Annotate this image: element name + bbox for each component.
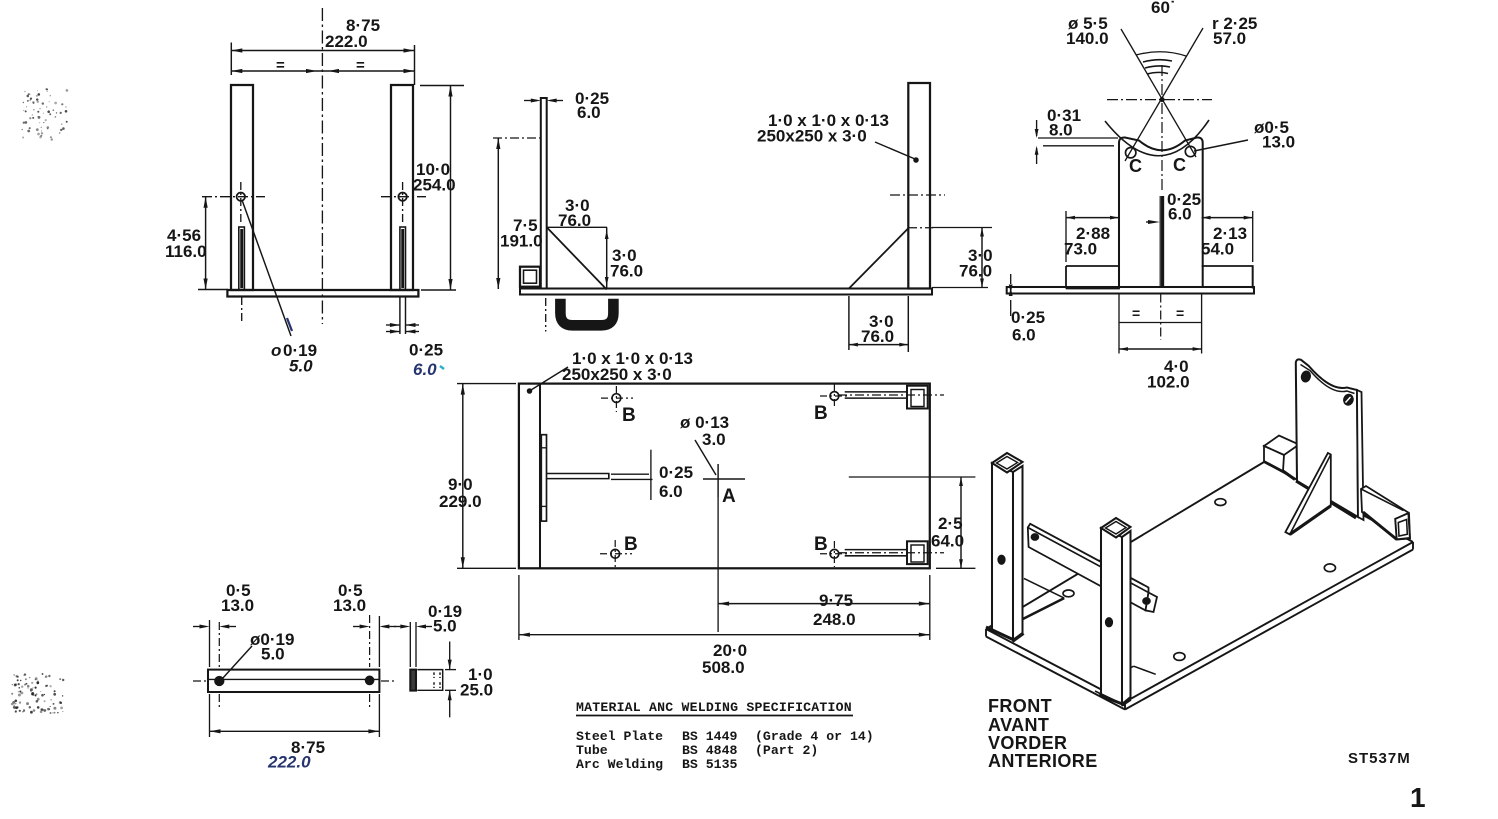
plan outline <box>519 384 930 569</box>
iso base hole B bottom <box>1174 653 1185 661</box>
notch radius arc r57 <box>1105 120 1209 156</box>
iso left post hole <box>998 555 1005 564</box>
iso rear plate top notch curve <box>1301 365 1355 394</box>
svg-text:508.0: 508.0 <box>702 658 745 677</box>
side view rear post (square tube) <box>908 83 930 289</box>
scan smudge upper-left <box>22 88 69 141</box>
svg-text:=: = <box>1176 305 1184 321</box>
hole C right <box>1185 146 1195 156</box>
iso middle post <box>1101 528 1122 704</box>
dimension 2.88 / 73.0 left bar <box>1065 211 1067 262</box>
dimension 0.5 / 13.0 left <box>209 620 211 667</box>
svg-text:6.0: 6.0 <box>659 482 683 501</box>
dimension 0.31 / 8.0 <box>1038 137 1118 139</box>
construction line right 60deg <box>1125 28 1203 161</box>
angle arc hatch marks <box>1143 60 1172 62</box>
dimension 0.25 / 6.0 plate thickness <box>524 100 537 102</box>
hole centerline on rear post <box>890 194 945 196</box>
svg-text:13.0: 13.0 <box>333 596 366 615</box>
svg-text:6.0: 6.0 <box>1168 205 1192 224</box>
leader to center mark A <box>695 440 716 475</box>
dimension 10.0 / 254.0 post height right <box>420 85 464 87</box>
svg-text:76.0: 76.0 <box>558 211 591 230</box>
svg-text:=: = <box>276 57 285 74</box>
svg-text:13.0: 13.0 <box>221 596 254 615</box>
strap centerlines <box>193 680 207 682</box>
svg-text:13.0: 13.0 <box>1262 133 1295 152</box>
strap end side stub with hidden hole <box>417 670 442 691</box>
horizontal centerline detail <box>1107 99 1212 101</box>
svg-text:76.0: 76.0 <box>610 262 643 281</box>
svg-text:57.0: 57.0 <box>1213 29 1246 48</box>
dimension 4.0 / 102.0 <box>1119 348 1202 350</box>
svg-text:0·25: 0·25 <box>659 463 693 482</box>
cross tube left bar behind plate <box>1066 266 1119 289</box>
strap hole left (filled) <box>215 676 224 685</box>
hole B bottom-left <box>611 549 620 558</box>
svg-text:229.0: 229.0 <box>439 492 482 511</box>
hole C left <box>1126 148 1136 158</box>
leader line hole dia <box>242 200 291 336</box>
dimension 1.0 / 25.0 strap width <box>445 669 456 671</box>
dimension 4.56 / 116.0 hole height left <box>198 289 228 291</box>
iso rear stub tube <box>1264 436 1299 456</box>
svg-text:64.0: 64.0 <box>931 532 964 551</box>
svg-text:=: = <box>356 57 365 74</box>
front view left post <box>231 85 253 290</box>
scan artifact cyan dash <box>440 366 444 369</box>
dimension 3.0 / 76.0 right gusset base <box>848 296 850 350</box>
strap end view bar <box>410 670 416 691</box>
dimension 9.0 / 229.0 plan depth <box>457 383 516 385</box>
iso base far edge W-N <box>986 462 1264 629</box>
side view cross tube square section <box>520 267 540 287</box>
vertical centerline detail <box>1161 65 1163 192</box>
scan smudge lower-left <box>11 673 65 714</box>
side view strap U below base <box>560 299 613 326</box>
svg-text:o: o <box>271 341 281 360</box>
svg-text:0·25: 0·25 <box>1011 308 1045 327</box>
iso right tube end cap <box>1395 513 1410 539</box>
dimension 8.75 / 222.0 top width <box>230 43 232 76</box>
svg-text:9·75: 9·75 <box>819 591 853 610</box>
svg-text:Steel Plate: Steel Plate <box>576 729 663 744</box>
svg-text:76.0: 76.0 <box>959 262 992 281</box>
centerline front view <box>321 8 323 324</box>
svg-text:250x250 x 3·0: 250x250 x 3·0 <box>562 365 672 384</box>
svg-text:BS 5135: BS 5135 <box>682 757 737 772</box>
svg-text:5.0: 5.0 <box>289 357 313 376</box>
plan rear plate edge line <box>539 384 541 569</box>
iso strap hole right <box>1143 598 1150 604</box>
hole B bottom-right <box>830 549 839 558</box>
dimension 0.25 / 6.0 base thickness detail <box>1010 300 1012 316</box>
detail base plate <box>1007 287 1254 294</box>
svg-text:(Part 2): (Part 2) <box>755 743 818 758</box>
iso base back edge N-E <box>1264 462 1413 542</box>
front view right post <box>391 85 413 290</box>
leader strap hole <box>222 646 252 679</box>
svg-text:60˙: 60˙ <box>1151 0 1176 17</box>
iso right tube weld <box>1363 512 1397 539</box>
svg-text:6.0: 6.0 <box>1012 326 1036 345</box>
iso right tube rail <box>1361 486 1410 540</box>
svg-text:ANTERIORE: ANTERIORE <box>988 751 1098 771</box>
iso strap hole left <box>1031 534 1038 540</box>
iso rear plate side face <box>1357 390 1364 520</box>
plan slot bottom-right with tube end <box>845 550 907 556</box>
svg-text:B: B <box>814 403 828 424</box>
svg-text:6.0: 6.0 <box>413 360 437 379</box>
svg-text:Arc Welding: Arc Welding <box>576 757 663 772</box>
side view base plate <box>520 289 932 295</box>
svg-text:191.0: 191.0 <box>500 232 543 251</box>
iso base front-right edge F-E with thickness <box>1125 542 1413 702</box>
svg-text:VORDER: VORDER <box>988 733 1067 753</box>
iso rear plate hole upper-left <box>1300 370 1311 382</box>
strap hole right (filled) <box>365 676 374 685</box>
svg-text:73.0: 73.0 <box>1064 240 1097 259</box>
svg-text:=: = <box>1132 305 1140 321</box>
svg-text:1: 1 <box>1410 782 1426 813</box>
svg-text:C: C <box>1173 155 1186 175</box>
front view hole right <box>398 193 406 201</box>
svg-text:254.0: 254.0 <box>413 176 456 195</box>
svg-text:BS 4848: BS 4848 <box>682 743 737 758</box>
dimension 20.0 / 508.0 <box>518 575 520 640</box>
svg-text:MATERIAL ANC WELDING SPECIFICA: MATERIAL ANC WELDING SPECIFICATION <box>576 700 852 715</box>
iso strap between posts <box>1028 524 1149 611</box>
iso base front-left edge W-F with thickness <box>986 629 1125 702</box>
leader to hole C right <box>1194 140 1248 151</box>
iso gusset <box>1285 453 1330 534</box>
front view left slot <box>239 227 245 290</box>
svg-text:6.0: 6.0 <box>577 103 601 122</box>
svg-text:2·5: 2·5 <box>938 514 963 533</box>
svg-text:B: B <box>622 405 636 426</box>
iso base hole B right <box>1324 564 1335 572</box>
iso middle post cap <box>1101 518 1131 538</box>
rear plate detail outline with notch <box>1119 137 1203 287</box>
apex dot <box>1160 98 1164 102</box>
svg-text:FRONT: FRONT <box>988 696 1052 716</box>
hole B top-left <box>612 394 621 403</box>
iso left post cap <box>992 453 1023 473</box>
dimension 3.0 / 76.0 right gusset height <box>909 227 936 229</box>
side view upright plate <box>541 98 547 289</box>
plan slot bar <box>547 474 609 479</box>
side view gusset right <box>849 228 908 288</box>
iso gusset weld base <box>1290 506 1331 535</box>
dimension 9.75 / 248.0 <box>717 497 719 632</box>
svg-text:54.0: 54.0 <box>1201 240 1234 259</box>
leader to rear post <box>875 142 915 159</box>
svg-text:8.0: 8.0 <box>1049 121 1073 140</box>
center mark A <box>703 478 745 480</box>
dimension equal-halves line with = marks <box>231 70 414 72</box>
svg-text:76.0: 76.0 <box>861 327 894 346</box>
svg-text:0·25: 0·25 <box>409 341 443 360</box>
front view base plate <box>227 290 418 297</box>
dimension 8.75 / 222.0 strap length <box>209 694 211 737</box>
svg-text:B: B <box>814 534 828 555</box>
svg-text:222.0: 222.0 <box>325 32 368 51</box>
dimension 2.13 / 54.0 right bar <box>1252 211 1254 262</box>
dimension 0.25 / 6.0 slot width front view <box>399 297 401 334</box>
svg-text:A: A <box>722 486 736 507</box>
strap outline <box>208 670 379 692</box>
svg-text:ST537M: ST537M <box>1348 750 1411 767</box>
dimension 7.5 / 191.0 height <box>493 137 541 139</box>
svg-text:AVANT: AVANT <box>988 715 1049 735</box>
slot in rear plate detail <box>1161 196 1164 288</box>
iso left post foot weld <box>986 627 1014 640</box>
iso base hole B left <box>1063 590 1074 597</box>
iso rear plate bottom weld <box>1296 481 1356 518</box>
iso scribe lines footprint <box>1024 578 1064 598</box>
svg-text:C: C <box>1129 156 1142 176</box>
equal halves dimension below detail <box>1118 294 1120 354</box>
plan rear plate bar <box>541 435 546 521</box>
dimension 2.5 / 64.0 right <box>849 476 976 478</box>
svg-text:116.0: 116.0 <box>165 242 207 261</box>
dimension 0.25 / 6.0 plan slot <box>650 450 652 500</box>
hole B top-right <box>830 392 839 401</box>
svg-text:248.0: 248.0 <box>813 610 856 629</box>
svg-text:25.0: 25.0 <box>460 681 493 700</box>
svg-text:Tube: Tube <box>576 743 608 758</box>
iso middle post foot weld <box>1099 695 1125 705</box>
leader plan corner <box>531 367 568 390</box>
construction line left 60deg <box>1121 29 1196 157</box>
svg-text:250x250 x 3·0: 250x250 x 3·0 <box>757 127 867 146</box>
svg-text:140.0: 140.0 <box>1066 29 1109 48</box>
iso left post <box>992 463 1013 640</box>
iso base hole B top <box>1215 499 1226 506</box>
plan slot top-right with tube end <box>845 392 907 398</box>
svg-text:5.0: 5.0 <box>433 617 457 636</box>
dimension 0.5 / 13.0 right <box>378 616 380 667</box>
front view right slot <box>400 227 406 290</box>
centerline below left plate <box>545 298 547 332</box>
iso middle post hole <box>1106 618 1113 627</box>
iso rear plate <box>1296 359 1358 517</box>
svg-text:(Grade 4 or 14): (Grade 4 or 14) <box>755 729 874 744</box>
svg-text:BS 1449: BS 1449 <box>682 729 737 744</box>
svg-text:102.0: 102.0 <box>1147 373 1190 392</box>
svg-text:B: B <box>624 534 638 555</box>
front view hole left <box>237 193 245 201</box>
svg-text:222.0: 222.0 <box>267 753 311 772</box>
svg-text:3.0: 3.0 <box>702 430 726 449</box>
iso rear stub weld line <box>1283 471 1295 480</box>
svg-text:5.0: 5.0 <box>261 645 285 664</box>
cross tube right bar behind plate <box>1202 266 1253 289</box>
iso rear plate hole upper-right <box>1343 393 1355 406</box>
side view gusset left <box>547 226 607 228</box>
dimension 0.19 / 5.0 strap thickness <box>409 622 411 667</box>
